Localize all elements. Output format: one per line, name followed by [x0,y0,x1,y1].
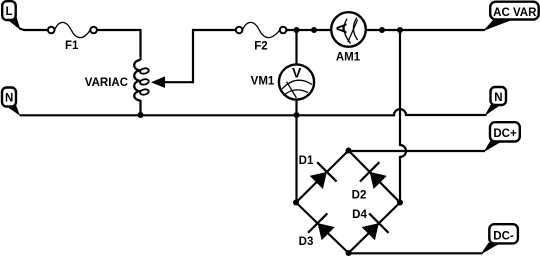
junction dot AM1 right terminal [379,27,385,33]
junction dot AM1 left terminal [311,27,317,33]
bridge edge wire L-B [296,203,349,254]
wire F1 to VARIAC top [97,30,141,60]
terminal L [2,1,20,30]
wire F2 to AC VAR terminal [286,29,485,31]
svg-text:AM1: AM1 [336,52,361,64]
junction dot variac-neutral [138,112,144,118]
svg-text:D3: D3 [299,236,314,248]
terminal DC+ [484,122,520,152]
svg-text:D1: D1 [299,155,314,167]
svg-text:F2: F2 [254,41,267,53]
variac wiper arrow [151,76,165,88]
ammeter AM1 [331,12,366,47]
bridge edge wire T-R [349,151,401,203]
terminal AC VAR [483,2,539,31]
svg-text:V: V [292,65,302,81]
neutral rail N with hop over vertical wire [20,109,487,115]
svg-text:DC-: DC- [493,230,514,242]
fuse F1 [48,22,97,37]
svg-text:N: N [5,92,13,104]
wire VM1 branch vertical [295,30,297,203]
wire L to F1 [20,29,48,31]
svg-text:N: N [494,92,502,104]
wire DC- from bridge bottom node to DC- terminal [349,252,483,254]
svg-text:D4: D4 [352,209,367,221]
svg-text:L: L [5,6,12,18]
terminal N left [2,88,20,116]
svg-text:F1: F1 [65,40,79,52]
wire wiper to F2 [164,30,236,82]
terminal DC- [481,224,518,254]
wire variac bottom to N rail [139,100,141,115]
diode D1 [310,162,337,189]
svg-text:AC VAR: AC VAR [493,7,537,19]
diode D3 [308,213,335,240]
svg-text:A: A [333,23,350,34]
fuse F2 [236,22,287,37]
junction dot bridge top node [346,148,352,154]
diode D4 [362,213,389,240]
svg-text:VARIAC: VARIAC [85,77,128,89]
junction dot bridge bottom node [346,250,352,256]
terminal N right [485,87,507,116]
wire DC+ from bridge top node to DC+ terminal [349,150,486,152]
diode D2 [360,162,387,189]
svg-text:VM1: VM1 [251,76,275,88]
junction dot VM1 top [294,27,300,33]
variac coil [134,60,149,100]
voltmeter VM1 [279,64,314,99]
bridge edge wire B-R [349,203,401,254]
wire AC hot to bridge right node with hop over DC+ line [400,30,406,203]
svg-text:DC+: DC+ [493,128,517,140]
svg-text:D2: D2 [352,190,367,202]
junction dot bridge right node [397,200,403,206]
junction dot VM1-neutral-bridge [294,112,300,118]
junction dot hot branch [397,27,403,33]
junction dot bridge left node [293,200,299,206]
bridge edge wire L-T [296,151,349,203]
